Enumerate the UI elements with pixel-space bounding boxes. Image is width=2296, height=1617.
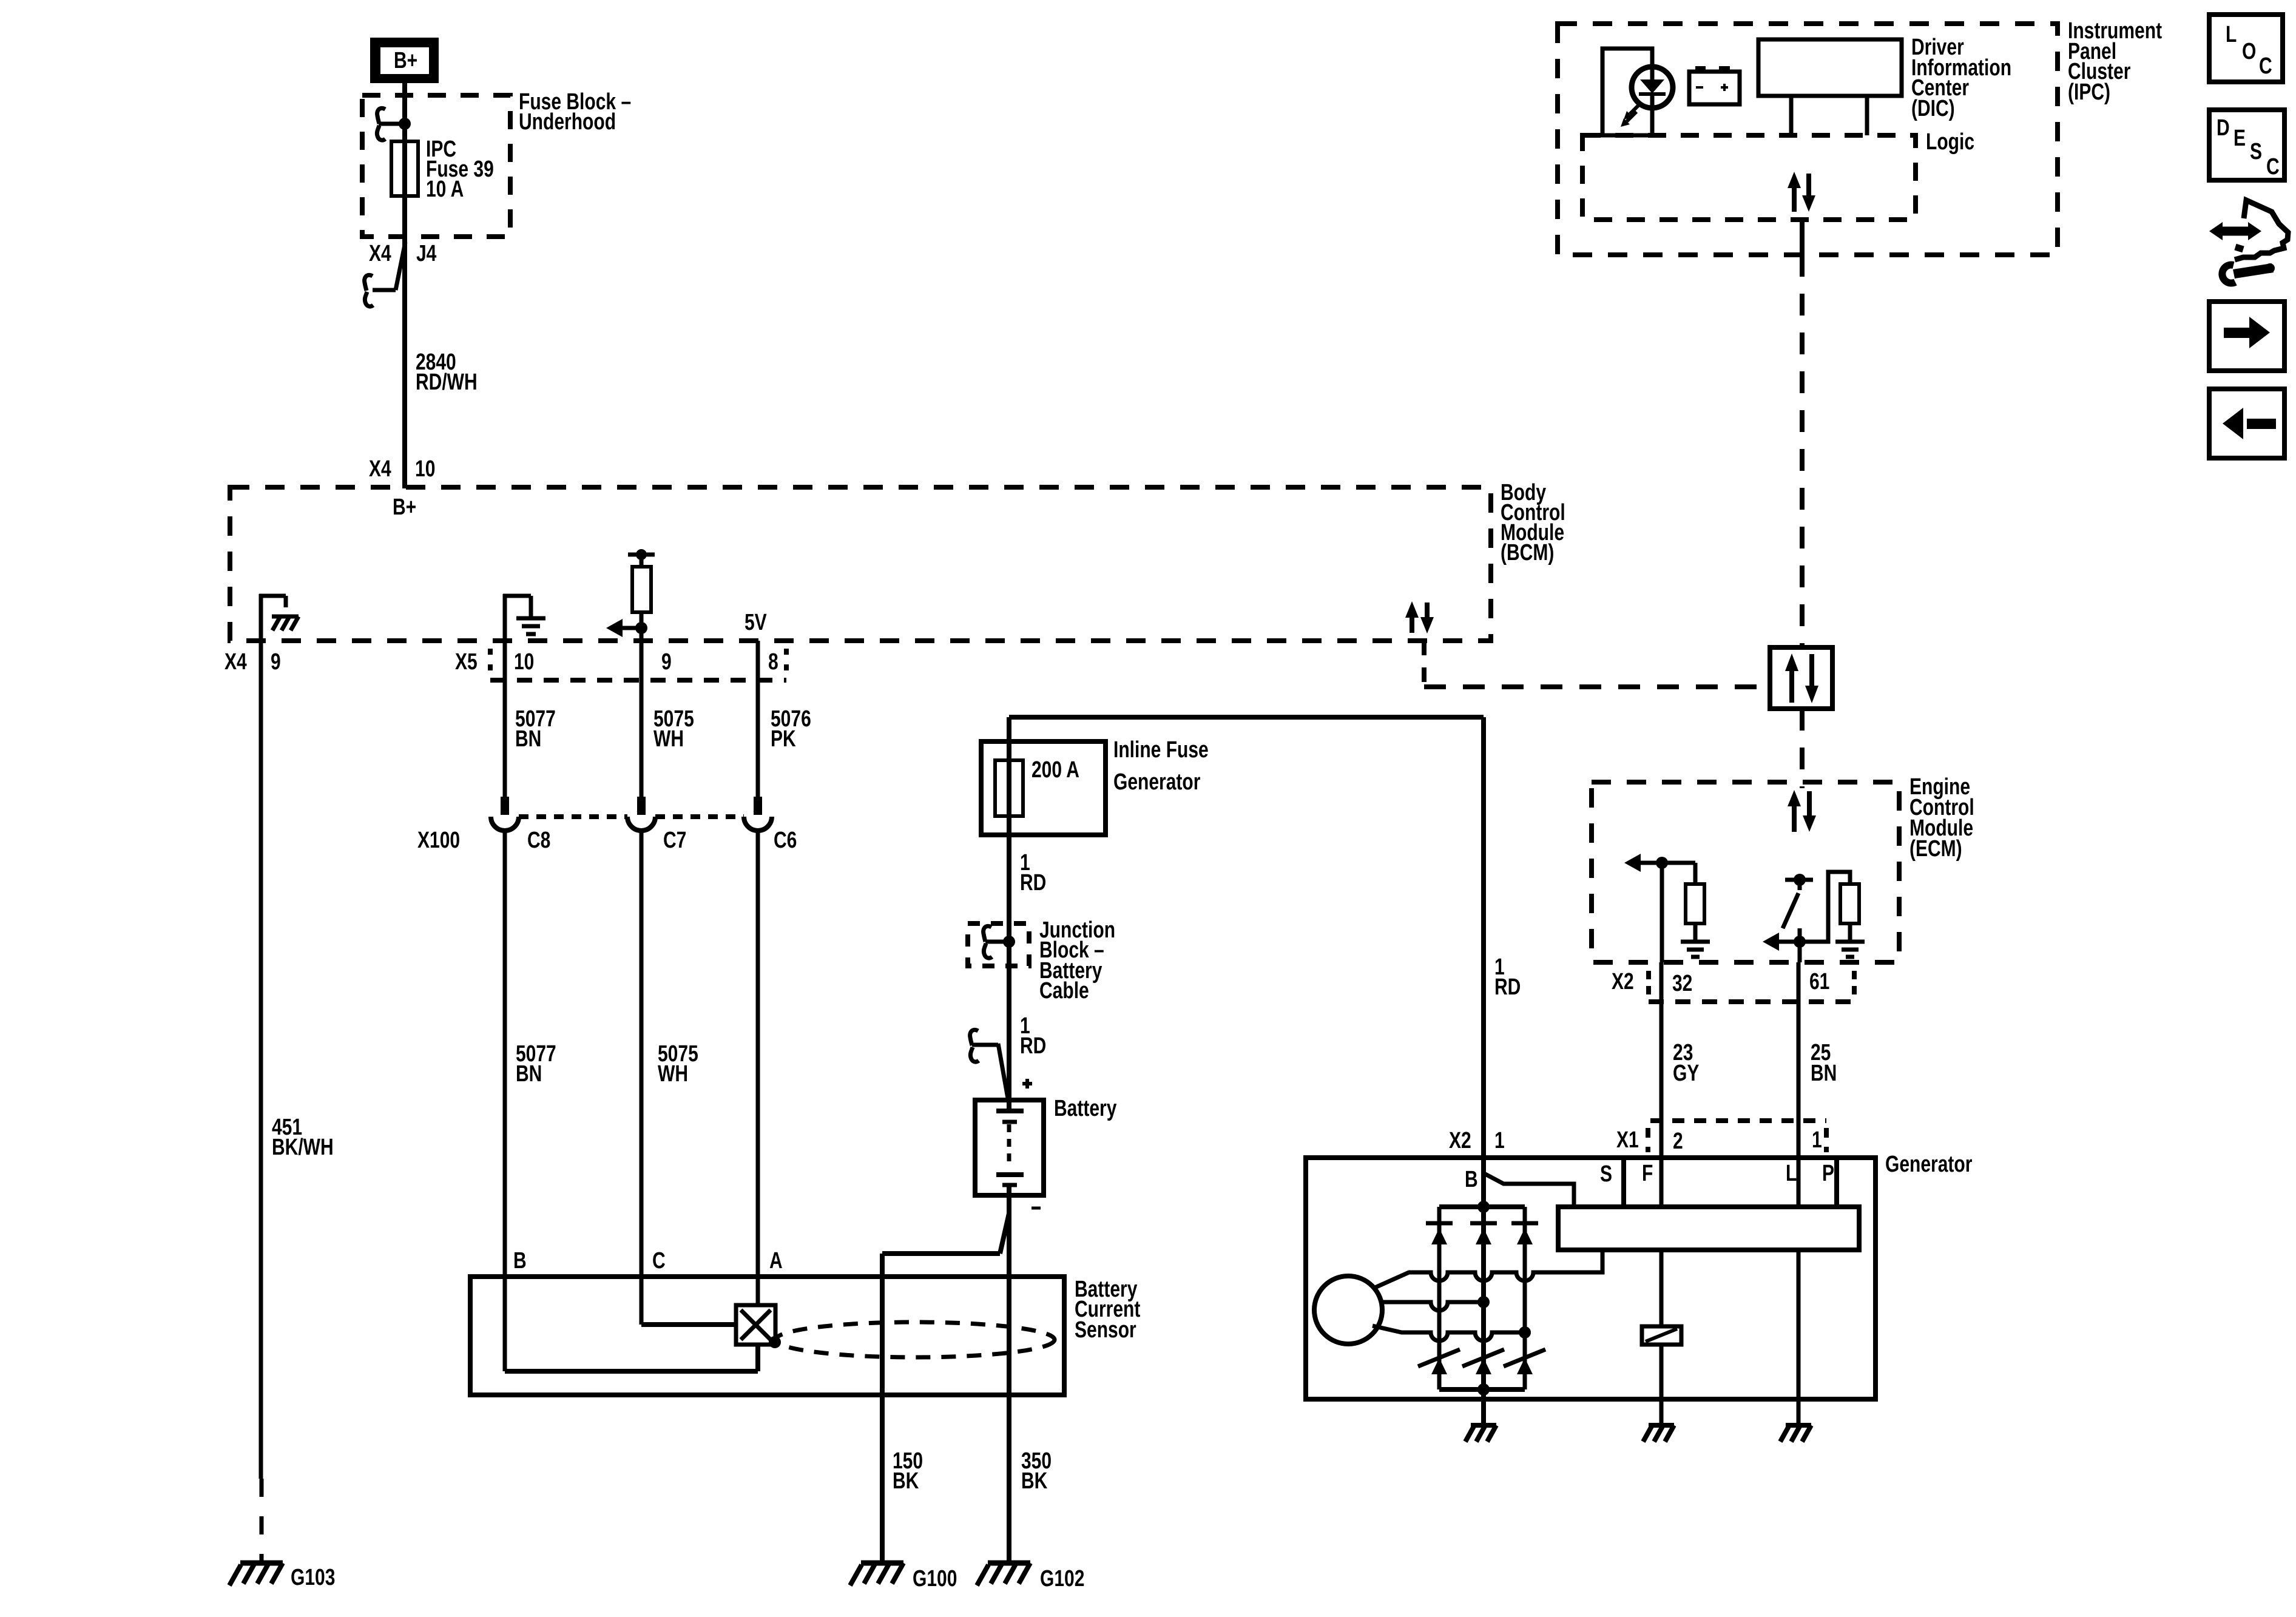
svg-text:X4: X4 <box>369 456 391 482</box>
svg-text:(ECM): (ECM) <box>1909 836 1962 862</box>
svg-text:B+: B+ <box>394 48 417 73</box>
svg-text:Logic: Logic <box>1926 129 1974 155</box>
svg-text:2: 2 <box>1673 1129 1683 1154</box>
svg-text:Generator: Generator <box>1113 769 1200 795</box>
svg-text:RD/WH: RD/WH <box>416 370 478 395</box>
svg-text:10 A: 10 A <box>426 177 464 202</box>
svg-text:C6: C6 <box>774 828 797 853</box>
svg-text:(IPC): (IPC) <box>2068 79 2110 105</box>
svg-text:PK: PK <box>771 726 796 752</box>
svg-text:L: L <box>1786 1161 1797 1186</box>
svg-text:BN: BN <box>1811 1061 1837 1086</box>
svg-text:B+: B+ <box>393 495 416 520</box>
svg-text:Generator: Generator <box>1885 1152 1972 1177</box>
svg-text:X4: X4 <box>225 649 247 675</box>
svg-text:S: S <box>1600 1161 1612 1187</box>
svg-text:GY: GY <box>1673 1061 1700 1086</box>
svg-text:BK/WH: BK/WH <box>272 1135 334 1160</box>
svg-text:9: 9 <box>271 649 281 675</box>
svg-text:200 A: 200 A <box>1032 757 1079 783</box>
svg-text:B: B <box>513 1248 527 1274</box>
svg-text:RD: RD <box>1494 974 1521 1000</box>
svg-text:WH: WH <box>658 1061 688 1087</box>
svg-text:1: 1 <box>1812 1127 1822 1153</box>
svg-text:BN: BN <box>515 726 541 752</box>
svg-text:X2: X2 <box>1449 1128 1471 1153</box>
svg-text:WH: WH <box>653 726 684 752</box>
svg-text:BK: BK <box>893 1468 919 1494</box>
svg-text:C8: C8 <box>527 828 550 853</box>
svg-text:L: L <box>2226 22 2237 47</box>
svg-text:5V: 5V <box>745 610 767 635</box>
svg-text:C: C <box>652 1248 666 1274</box>
svg-text:Sensor: Sensor <box>1075 1317 1136 1343</box>
svg-text:J4: J4 <box>416 241 436 266</box>
svg-text:X4: X4 <box>369 241 391 266</box>
svg-text:B: B <box>1465 1167 1478 1192</box>
svg-text:9: 9 <box>661 649 672 675</box>
svg-text:G100: G100 <box>913 1566 957 1592</box>
svg-text:P: P <box>1822 1161 1834 1186</box>
svg-text:(BCM): (BCM) <box>1501 540 1554 565</box>
svg-text:BK: BK <box>1021 1468 1048 1494</box>
svg-text:X100: X100 <box>417 828 460 853</box>
svg-text:61: 61 <box>1809 969 1829 994</box>
svg-text:C: C <box>2266 154 2280 180</box>
svg-text:X5: X5 <box>455 649 478 675</box>
svg-text:G102: G102 <box>1040 1566 1084 1592</box>
svg-text:C: C <box>2259 53 2272 79</box>
svg-text:F: F <box>1642 1161 1653 1186</box>
svg-text:Inline Fuse: Inline Fuse <box>1113 737 1209 763</box>
svg-text:E: E <box>2234 126 2246 151</box>
svg-text:X2: X2 <box>1612 969 1634 994</box>
svg-text:C7: C7 <box>663 828 686 853</box>
svg-text:1: 1 <box>1494 1128 1505 1153</box>
svg-text:(DIC): (DIC) <box>1911 96 1955 121</box>
svg-text:BN: BN <box>516 1061 542 1087</box>
svg-text:Cable: Cable <box>1039 978 1089 1004</box>
svg-text:X1: X1 <box>1616 1127 1639 1153</box>
svg-text:8: 8 <box>768 649 778 675</box>
svg-text:S: S <box>2250 139 2262 164</box>
svg-text:Battery: Battery <box>1054 1096 1116 1121</box>
svg-text:D: D <box>2217 115 2230 141</box>
svg-text:Underhood: Underhood <box>519 109 616 135</box>
svg-text:O: O <box>2242 39 2256 64</box>
svg-text:RD: RD <box>1020 870 1046 896</box>
svg-text:10: 10 <box>514 649 534 675</box>
svg-text:A: A <box>769 1248 783 1274</box>
svg-text:10: 10 <box>415 456 435 482</box>
svg-text:G103: G103 <box>291 1565 335 1590</box>
svg-text:RD: RD <box>1020 1033 1046 1059</box>
svg-text:32: 32 <box>1672 971 1692 996</box>
